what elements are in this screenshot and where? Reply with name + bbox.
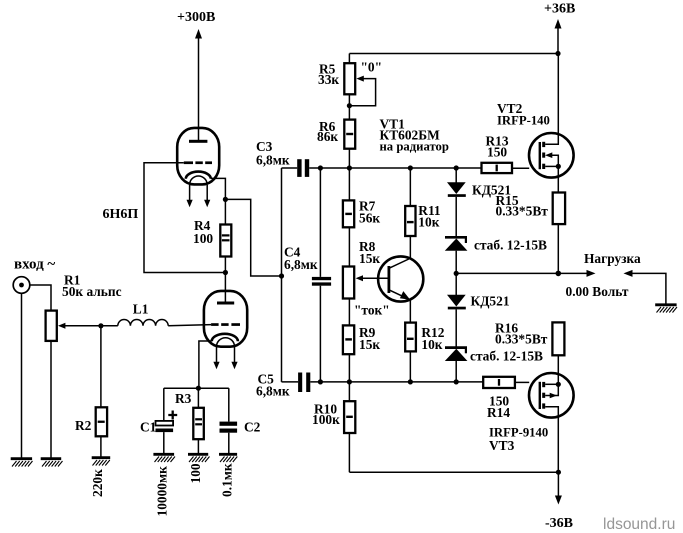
load arrow right <box>558 270 595 277</box>
node +36V rail / VT2 drain <box>555 51 560 56</box>
node bottom rail/R9-R10 <box>347 379 352 384</box>
zener VD2 12-15V <box>445 237 468 273</box>
svg-text:+300В: +300В <box>177 10 215 25</box>
resistor R16 <box>552 322 564 384</box>
VD4 label <box>470 349 543 364</box>
node -36V rail <box>556 470 561 475</box>
svg-text:VT3: VT3 <box>489 438 515 453</box>
V2 heater <box>213 338 237 370</box>
resistor R11 <box>405 168 415 236</box>
node rail/R11 <box>408 165 413 170</box>
svg-text:50к альпс: 50к альпс <box>62 284 122 299</box>
R8 wiper to VT1 base <box>356 275 389 281</box>
svg-text:-36В: -36В <box>545 516 573 531</box>
R16 labels <box>495 321 548 347</box>
wire node B to V2 anode <box>224 273 226 304</box>
svg-text:10к: 10к <box>421 337 442 352</box>
resistor R14 <box>483 377 529 388</box>
0 volt label <box>566 284 629 299</box>
potentiometer R5 <box>344 54 355 120</box>
svg-text:56к: 56к <box>359 211 380 226</box>
svg-text:0.33*5Вт: 0.33*5Вт <box>496 204 549 219</box>
node bottom rail/C4 <box>318 379 323 384</box>
transistor VT1 KT602BM <box>378 256 423 301</box>
svg-text:150: 150 <box>487 145 507 160</box>
VT1 labels <box>380 117 449 154</box>
svg-text:86к: 86к <box>317 129 338 144</box>
tube V1 6N6P upper triode envelope <box>177 128 219 184</box>
node B (R4 bottom / V2 anode / V1 grid) <box>223 270 228 275</box>
diode VD1 KD521 <box>447 168 466 237</box>
diode VD3 KD521 <box>447 273 466 346</box>
wire SRPP output column <box>281 168 283 382</box>
svg-text:6Н6П: 6Н6П <box>103 207 139 222</box>
ground (load) <box>655 305 677 313</box>
ground (R1) <box>41 459 63 467</box>
V2 grid (dashed) <box>211 323 240 326</box>
resistor R2 <box>96 326 107 458</box>
R11 labels <box>418 203 440 230</box>
capacitor C1 <box>156 388 178 454</box>
wire 0V line <box>456 272 558 274</box>
svg-text:100: 100 <box>193 231 213 246</box>
svg-text:0.33*5Вт: 0.33*5Вт <box>495 332 548 347</box>
R5 labels <box>318 60 382 88</box>
VT3 labels <box>489 426 548 454</box>
R3 labels <box>175 391 203 484</box>
capacitor C3 <box>282 159 482 177</box>
R4 labels <box>193 218 213 246</box>
ground (input) <box>11 459 33 467</box>
node rail/R6-R7 <box>347 165 352 170</box>
watermark <box>603 516 675 533</box>
node A (V1 cathode / R4 top) <box>223 197 228 202</box>
svg-text:C1: C1 <box>140 420 156 435</box>
R8 labels <box>354 239 390 318</box>
wire V1 cathode to node A <box>211 178 226 199</box>
V2 cathode <box>212 334 238 341</box>
load return arrow <box>624 270 666 305</box>
C5 labels <box>256 372 290 399</box>
wire VT1 emitter to R12 <box>409 300 411 323</box>
svg-text:Нагрузка: Нагрузка <box>584 251 641 266</box>
svg-text:15к: 15к <box>359 251 380 266</box>
wire L1 to V2 grid <box>168 325 211 326</box>
V1 label 6N6P <box>103 207 139 222</box>
R9 labels <box>359 325 380 352</box>
svg-text:ldsound.ru: ldsound.ru <box>603 516 675 533</box>
C3 labels <box>256 139 290 168</box>
svg-text:вход ~: вход ~ <box>14 257 55 273</box>
svg-text:6,8мк: 6,8мк <box>256 153 290 168</box>
input connector <box>13 277 30 294</box>
zener VD4 12-15V <box>445 348 468 382</box>
svg-text:220к: 220к <box>90 469 105 497</box>
C1 label <box>140 420 170 517</box>
power -36V <box>545 472 573 531</box>
svg-text:15к: 15к <box>359 337 380 352</box>
VT2 labels <box>497 101 550 128</box>
resistor R12 <box>405 323 416 382</box>
wire +36V rail to R5 top <box>349 53 558 55</box>
inductor L1 <box>101 319 168 325</box>
power +36V <box>544 2 575 54</box>
resistor R9 <box>343 299 354 382</box>
svg-text:6,8мк: 6,8мк <box>256 384 290 399</box>
svg-text:+36В: +36В <box>544 2 575 17</box>
resistor R6 <box>344 120 355 168</box>
svg-text:33к: 33к <box>318 72 339 87</box>
MOSFET VT2 IRFP-140 <box>529 54 574 193</box>
node C (V2 cathode / R3 / C1 / C2) <box>196 386 201 391</box>
VD1 label <box>472 183 511 198</box>
R12 labels <box>421 325 444 352</box>
tube V2 6N6P lower triode envelope <box>204 291 247 347</box>
svg-text:КД521: КД521 <box>471 294 510 309</box>
wire VT1 collector to R11 <box>409 236 411 258</box>
wire V2 cathode to node C <box>199 341 212 388</box>
capacitor C5 <box>282 373 484 393</box>
svg-text:L1: L1 <box>133 302 149 317</box>
resistor R13 <box>482 163 530 173</box>
svg-text:R3: R3 <box>175 391 192 406</box>
V1 heater <box>187 176 211 207</box>
R7 labels <box>359 199 380 226</box>
node R5/R6 junction <box>347 103 352 108</box>
C2 label <box>220 420 261 498</box>
svg-text:100к: 100к <box>312 412 340 427</box>
input label <box>14 257 55 273</box>
resistor R15 <box>553 193 565 274</box>
svg-text:стаб. 12-15В: стаб. 12-15В <box>474 238 547 253</box>
svg-text:R2: R2 <box>75 418 92 433</box>
R1 labels <box>62 273 122 300</box>
svg-text:10к: 10к <box>418 215 439 230</box>
wire input to R1 top <box>30 285 51 311</box>
node SRPP output <box>279 273 284 278</box>
VD2 label <box>474 238 547 253</box>
resistor R4 <box>220 199 231 272</box>
R14 labels <box>487 394 510 421</box>
wire node A to SRPP output column <box>225 199 281 276</box>
node R1 wiper / R2 / L1 <box>98 323 103 328</box>
svg-text:IRFP-140: IRFP-140 <box>497 114 550 128</box>
L1 label <box>133 302 149 317</box>
V1 grid (dashed) <box>184 161 212 164</box>
resistor R7 <box>343 168 354 267</box>
MOSFET VT3 IRFP-9140 <box>529 373 574 472</box>
svg-text:0.00 Вольт: 0.00 Вольт <box>566 284 629 299</box>
node rail/diodes <box>454 165 459 170</box>
R15 labels <box>496 193 549 219</box>
C4 labels <box>284 245 318 273</box>
R2 labels <box>75 418 105 497</box>
wire node B to V1 grid <box>144 163 225 273</box>
R5 wiper <box>349 76 375 106</box>
svg-text:"0": "0" <box>361 60 383 75</box>
svg-text:0.1мк: 0.1мк <box>220 463 235 497</box>
R13 labels <box>486 134 509 160</box>
potentiometer R8 <box>343 267 354 299</box>
svg-text:C2: C2 <box>244 420 261 435</box>
V1 anode plate <box>189 140 207 143</box>
wire node C crossbar <box>164 387 229 389</box>
ground (R2) <box>92 458 111 466</box>
power +300V <box>177 10 215 140</box>
svg-text:100: 100 <box>188 463 203 483</box>
svg-text:на радиатор: на радиатор <box>380 140 449 154</box>
svg-text:R14: R14 <box>487 405 510 420</box>
capacitor C4 <box>312 168 331 382</box>
svg-text:10000мк: 10000мк <box>155 466 170 517</box>
node bottom rail/diodes <box>454 379 459 384</box>
svg-text:стаб. 12-15В: стаб. 12-15В <box>470 349 543 364</box>
R6 labels <box>317 119 338 144</box>
node diode chain / 0V output <box>454 271 459 276</box>
V2 anode plate <box>217 302 234 305</box>
R10 labels <box>312 402 340 428</box>
ground (C2) <box>219 454 237 462</box>
svg-text:"ток": "ток" <box>354 303 390 318</box>
R1 wiper <box>58 323 101 329</box>
resistor R10 <box>344 382 355 472</box>
node rail/C4 <box>318 165 323 170</box>
resistor R3 <box>193 388 204 454</box>
svg-text:6,8мк: 6,8мк <box>284 257 318 272</box>
ground (C1) <box>153 454 175 462</box>
node output <box>556 271 562 277</box>
wire input to ground <box>21 293 23 458</box>
capacitor C2 <box>220 388 238 454</box>
ground (R3) <box>188 454 210 462</box>
VD3 label <box>471 294 510 309</box>
V1 cathode <box>186 172 211 179</box>
potentiometer R1 <box>46 311 57 459</box>
node bottom rail/R12 <box>408 379 413 384</box>
load label <box>584 251 641 266</box>
wire bottom return to -36V <box>349 471 558 473</box>
